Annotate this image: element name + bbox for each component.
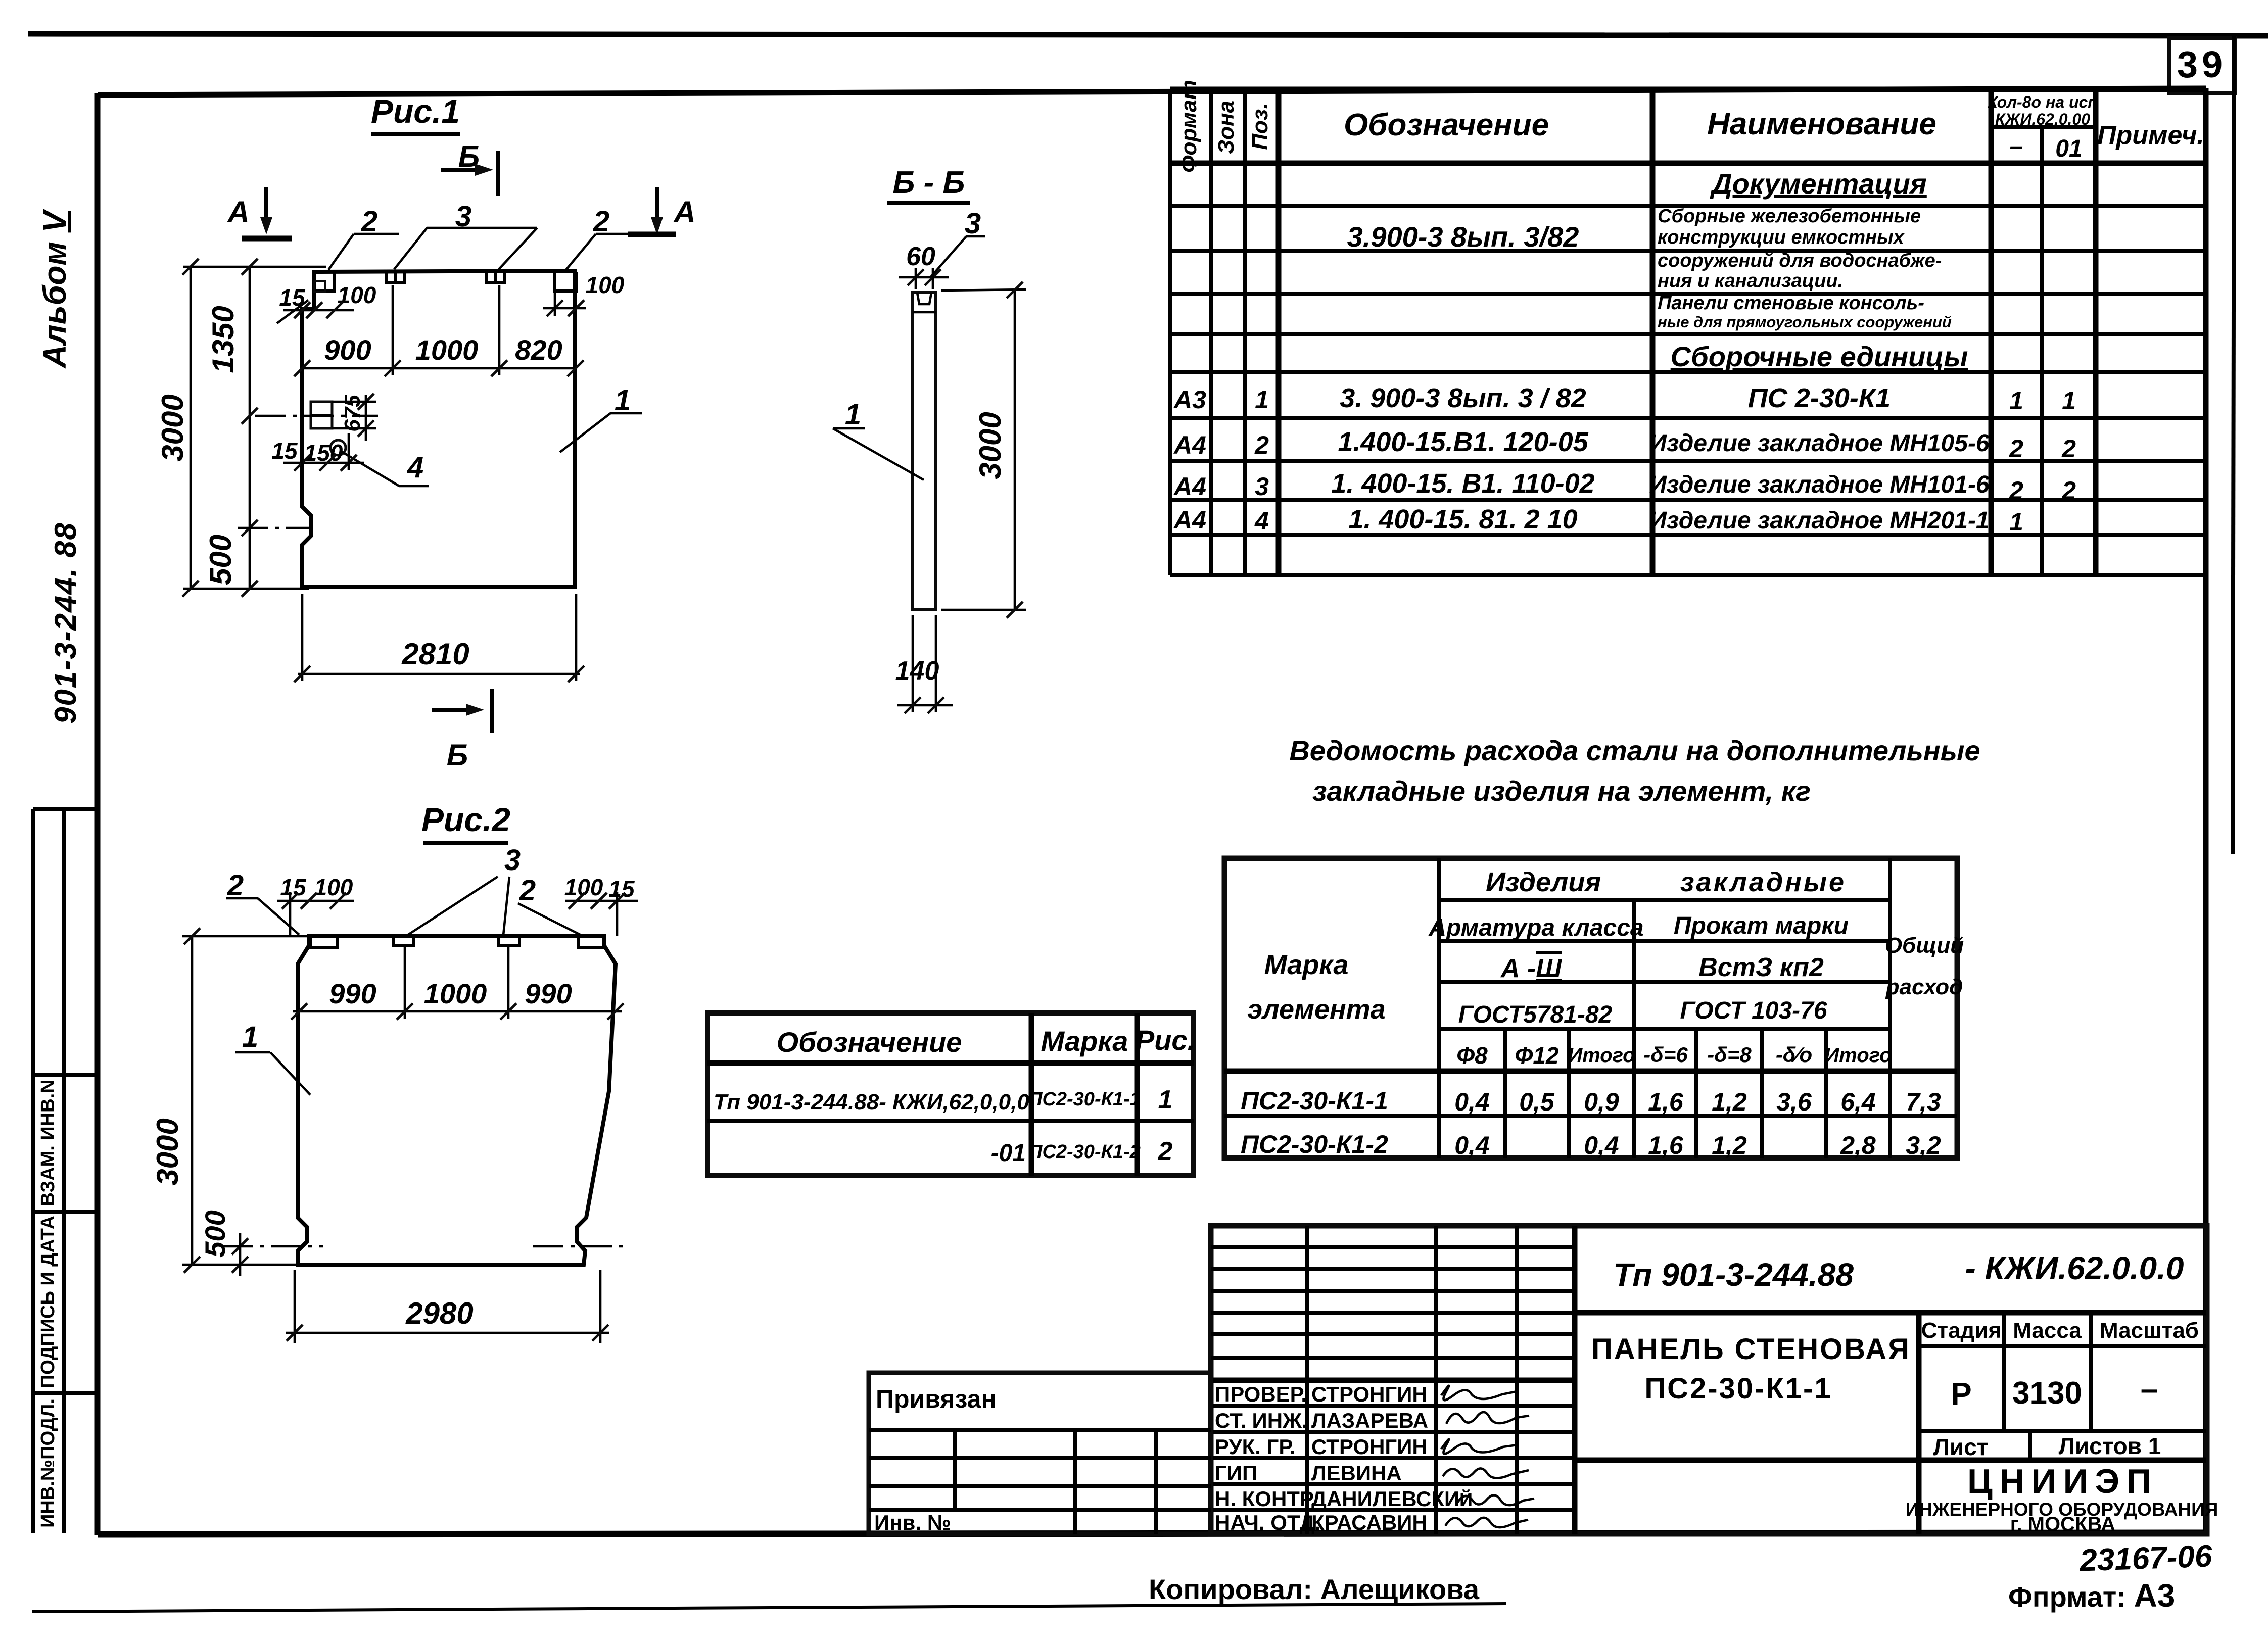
- svg-text:7,3: 7,3: [1906, 1088, 1941, 1116]
- svg-text:15: 15: [279, 284, 306, 311]
- margin label ИНВ.№ПОДЛ: [37, 1398, 59, 1528]
- svg-text:1: 1: [2009, 508, 2023, 536]
- svg-text:Рис.: Рис.: [1136, 1024, 1195, 1056]
- personnel row НАЧ.ОТД КРАСАВИН: [1215, 1511, 1428, 1534]
- svg-text:Примеч.: Примеч.: [2097, 121, 2204, 150]
- svg-text:1,6: 1,6: [1648, 1088, 1684, 1116]
- section Б-Б leader 3: [931, 207, 985, 277]
- fig2 leader label 3: [407, 844, 521, 935]
- svg-text:Обозначение: Обозначение: [777, 1026, 962, 1058]
- fig1 section mark Б bottom: [432, 689, 492, 772]
- svg-text:1: 1: [1158, 1085, 1173, 1115]
- steel table header ГОСТ rows: [1458, 997, 1827, 1028]
- svg-text:1: 1: [845, 398, 861, 431]
- fig1 dim 675: [332, 394, 376, 441]
- fig2 dims 990 1000 990: [291, 947, 624, 1020]
- svg-text:1. 400-15. В1. 110-02: 1. 400-15. В1. 110-02: [1331, 468, 1594, 499]
- svg-text:А4: А4: [1173, 472, 1206, 501]
- svg-text:Сборочные единицы: Сборочные единицы: [1671, 341, 1968, 372]
- spec header Формат: [1176, 80, 1201, 173]
- svg-text:2: 2: [2061, 476, 2076, 505]
- personnel row СТ.ИНЖ ЛАЗАРЕВА: [1215, 1409, 1428, 1432]
- fig2 dims 15 100 left: [277, 874, 354, 936]
- svg-text:ПС2-30-К1-2: ПС2-30-К1-2: [1028, 1141, 1141, 1163]
- svg-text:3: 3: [504, 844, 521, 877]
- spec header Зона: [1214, 101, 1239, 154]
- svg-text:Стадия: Стадия: [1921, 1318, 2001, 1343]
- svg-text:3. 900-3 8ып. 3 / 82: 3. 900-3 8ып. 3 / 82: [1340, 383, 1586, 413]
- spec header Кол-во на исп: [1988, 93, 2098, 162]
- svg-text:расход: расход: [1885, 975, 1963, 999]
- title block outer box: [1211, 1226, 2207, 1534]
- section Б-Б title: [887, 165, 970, 203]
- fig1 dims 900 1000 820: [294, 285, 584, 376]
- steel table header Марка элемента: [1247, 950, 1385, 1025]
- svg-text:100: 100: [564, 874, 603, 900]
- svg-text:Н. КОНТР.: Н. КОНТР.: [1215, 1487, 1316, 1511]
- steel table row ПС2-30-К1-2: [1241, 1130, 1941, 1160]
- section Б-Б bar outline: [913, 293, 936, 610]
- svg-text:ПОДПИСЬ И ДАТА: ПОДПИСЬ И ДАТА: [37, 1216, 59, 1388]
- svg-text:элемента: элемента: [1247, 994, 1385, 1025]
- svg-text:15: 15: [608, 876, 635, 902]
- svg-text:Фпрмат: А3: Фпрмат: А3: [2008, 1577, 2175, 1614]
- svg-text:1,6: 1,6: [1648, 1131, 1684, 1160]
- fig2 tab b: [394, 936, 414, 945]
- svg-text:ПС2-30-К1-1: ПС2-30-К1-1: [1028, 1089, 1141, 1110]
- svg-text:ВстЗ кп2: ВстЗ кп2: [1698, 953, 1824, 982]
- svg-text:СТРОНГИН: СТРОНГИН: [1311, 1435, 1428, 1459]
- svg-text:Рис.1: Рис.1: [371, 92, 460, 130]
- top paper edge line: [28, 34, 2268, 36]
- svg-text:140: 140: [895, 656, 939, 686]
- right fold line: [2233, 36, 2234, 854]
- svg-text:Ведомость расхода стали на: Ведомость расхода стали на дополнительны…: [1289, 735, 1980, 766]
- svg-text:500: 500: [204, 535, 238, 585]
- svg-text:ЛАЗАРЕВА: ЛАЗАРЕВА: [1311, 1409, 1428, 1432]
- signature 5: [1457, 1495, 1534, 1505]
- svg-text:1.400-15.В1. 120-05: 1.400-15.В1. 120-05: [1338, 427, 1588, 457]
- fig1 dim 500: [204, 520, 309, 597]
- marks table headers: [777, 1024, 1196, 1058]
- svg-text:Тп 901-3-244.88- КЖИ,62,0,0,0: Тп 901-3-244.88- КЖИ,62,0,0,0: [714, 1090, 1029, 1115]
- signature 6: [1445, 1518, 1528, 1527]
- svg-text:Изделие закладное МН101-6: Изделие закладное МН101-6: [1649, 471, 1990, 498]
- sheet number box 39: [2169, 38, 2235, 93]
- svg-text:2810: 2810: [401, 637, 469, 671]
- svg-text:Поз.: Поз.: [1248, 103, 1272, 150]
- svg-text:ПАНЕЛЬ СТЕНОВАЯ: ПАНЕЛЬ СТЕНОВАЯ: [1591, 1333, 1911, 1366]
- svg-text:901-3-244. 88: 901-3-244. 88: [49, 522, 82, 724]
- svg-text:А4: А4: [1173, 431, 1206, 459]
- svg-text:2: 2: [1158, 1137, 1173, 1166]
- svg-text:1000: 1000: [424, 978, 487, 1009]
- fig1 tab item2 left: [314, 272, 335, 292]
- svg-text:Альбом V: Альбом V: [36, 208, 73, 369]
- section Б-Б dim 140: [895, 615, 953, 713]
- svg-text:3000: 3000: [151, 1118, 184, 1185]
- svg-text:1: 1: [615, 384, 631, 417]
- svg-text:ГОСТ5781-82: ГОСТ5781-82: [1458, 1001, 1613, 1028]
- fig2 dim 2980: [286, 1270, 609, 1343]
- fig2 panel outline: [298, 936, 616, 1265]
- section Б-Б leader 1: [833, 398, 924, 480]
- svg-text:01: 01: [2055, 135, 2082, 162]
- svg-text:2: 2: [227, 869, 244, 902]
- spec section Сборочные единицы: [1671, 341, 1968, 372]
- svg-text:2: 2: [2009, 435, 2023, 463]
- svg-text:-δ=8: -δ=8: [1707, 1043, 1752, 1067]
- svg-text:990: 990: [329, 978, 376, 1009]
- fig1 embedded item4 box: [311, 402, 346, 455]
- fig2 dim 3000: [151, 928, 309, 1273]
- svg-text:1350: 1350: [206, 306, 240, 373]
- svg-text:Инв. №: Инв. №: [874, 1511, 951, 1534]
- fig1 leader label 1: [560, 384, 642, 452]
- fig1 tab item3 b: [486, 272, 504, 283]
- svg-text:3,2: 3,2: [1906, 1131, 1941, 1160]
- svg-text:Марка: Марка: [1264, 950, 1349, 980]
- svg-text:2: 2: [1254, 431, 1269, 459]
- marks table row 2: [991, 1137, 1173, 1167]
- fig1 dim 1350: [206, 259, 378, 590]
- svg-text:0,4: 0,4: [1584, 1131, 1619, 1160]
- signature 4: [1443, 1468, 1529, 1478]
- svg-text:0,4: 0,4: [1454, 1088, 1490, 1116]
- svg-text:Масса: Масса: [2013, 1318, 2082, 1343]
- steel table grid: [1224, 858, 1957, 1158]
- svg-text:ния и канализации.: ния и канализации.: [1658, 270, 1843, 292]
- attachment box ПРИВЯЗАН: [869, 1373, 1211, 1534]
- fig2 title: [421, 801, 510, 843]
- svg-text:2980: 2980: [405, 1296, 473, 1330]
- svg-text:сооружений для водоснабже-: сооружений для водоснабже-: [1658, 250, 1942, 271]
- marks table row 1: [714, 1085, 1172, 1115]
- fig2 tab a: [310, 936, 338, 948]
- svg-text:500: 500: [199, 1210, 231, 1257]
- svg-text:А: А: [673, 195, 695, 229]
- svg-text:НАЧ. ОТД.: НАЧ. ОТД.: [1215, 1511, 1320, 1534]
- svg-text:г. МОСКВА: г. МОСКВА: [2010, 1513, 2115, 1535]
- inventory number 23167-06: [2078, 1538, 2213, 1578]
- title block revision grid: [1211, 1226, 1575, 1534]
- svg-text:990: 990: [525, 978, 572, 1009]
- attachment grid: [869, 1430, 1211, 1534]
- personnel row ПРОВЕР СТРОНГИН: [1215, 1382, 1428, 1406]
- svg-text:Изделие закладное МН201-1: Изделие закладное МН201-1: [1649, 507, 1989, 534]
- svg-text:Панели стеновые консоль-: Панели стеновые консоль-: [1658, 293, 1924, 314]
- svg-text:-δ=6: -δ=6: [1643, 1043, 1688, 1067]
- svg-text:ГОСТ 103-76: ГОСТ 103-76: [1680, 997, 1827, 1024]
- svg-text:Изделие закладное МН105-6: Изделие закладное МН105-6: [1649, 430, 1990, 457]
- svg-text:ПС2-30-К1-2: ПС2-30-К1-2: [1241, 1130, 1388, 1159]
- svg-text:4: 4: [407, 451, 423, 484]
- spec row 3 МН101-6: [1173, 468, 2076, 505]
- svg-text:60: 60: [906, 242, 935, 271]
- section Б-Б dim 3000: [941, 282, 1026, 618]
- title block stage mass scale values: [1919, 1372, 2206, 1431]
- svg-text:3,6: 3,6: [1776, 1088, 1812, 1116]
- title block sheet row: [1933, 1431, 2161, 1460]
- steel table header Изделия закладные: [1486, 867, 1846, 897]
- svg-text:3: 3: [965, 207, 981, 240]
- svg-text:ПС 2-30-К1: ПС 2-30-К1: [1748, 383, 1891, 413]
- fig1 dim 3000 vertical: [156, 259, 326, 597]
- title block name cell: [1575, 1313, 2206, 1534]
- steel table heading: [1289, 735, 1980, 807]
- svg-text:Б: Б: [447, 738, 468, 772]
- fig1 section mark А right: [628, 187, 696, 234]
- fig1 leader label 3: [394, 200, 537, 269]
- section Б-Б dim 60: [899, 242, 949, 289]
- spec entry description: [1658, 206, 1952, 331]
- personnel row РУК.ГР СТРОНГИН: [1215, 1435, 1428, 1459]
- svg-text:1: 1: [2009, 387, 2023, 415]
- svg-text:Копировал: Алещикова: Копировал: Алещикова: [1149, 1573, 1480, 1605]
- svg-text:Обозначение: Обозначение: [1344, 108, 1549, 142]
- svg-text:Арматура класса: Арматура класса: [1428, 914, 1643, 941]
- svg-text:15: 15: [271, 438, 298, 464]
- svg-text:Марка: Марка: [1041, 1025, 1128, 1057]
- svg-text:А3: А3: [1173, 385, 1206, 414]
- svg-text:100: 100: [314, 874, 353, 900]
- fig2 dims 100 15 right: [564, 874, 638, 936]
- svg-text:2: 2: [2061, 435, 2076, 463]
- svg-text:ГИП: ГИП: [1215, 1461, 1257, 1485]
- svg-text:1. 400-15. 81. 2 10: 1. 400-15. 81. 2 10: [1348, 504, 1577, 535]
- svg-text:100: 100: [586, 272, 625, 298]
- svg-text:закладные: закладные: [1680, 867, 1846, 897]
- svg-text:ЛЕВИНА: ЛЕВИНА: [1311, 1461, 1402, 1485]
- fig1 leader label 4: [342, 451, 429, 486]
- fig2 tab d: [579, 936, 603, 948]
- svg-text:Ф8: Ф8: [1456, 1042, 1488, 1069]
- svg-text:ВЗАМ. ИНВ.N: ВЗАМ. ИНВ.N: [37, 1079, 59, 1206]
- spec header Поз.: [1248, 103, 1272, 150]
- svg-text:СТ. ИНЖ.: СТ. ИНЖ.: [1215, 1409, 1308, 1432]
- fig1 tab item3 a: [387, 272, 405, 283]
- fig2 tab c: [499, 936, 519, 945]
- spec row 4 МН201-1: [1173, 504, 2023, 536]
- svg-text:Р: Р: [1951, 1377, 1971, 1412]
- svg-text:закладные изделия на эле: закладные изделия на элемент, кг: [1312, 775, 1811, 807]
- svg-text:Привязан: Привязан: [876, 1385, 997, 1413]
- svg-text:Прокат марки: Прокат марки: [1674, 912, 1849, 939]
- bottom rule line: [32, 1604, 1506, 1612]
- svg-text:3000: 3000: [156, 394, 190, 461]
- svg-text:ПС2-30-К1-1: ПС2-30-К1-1: [1644, 1372, 1832, 1405]
- svg-text:Общий: Общий: [1885, 933, 1964, 958]
- svg-text:ПС2-30-К1-1: ПС2-30-К1-1: [1241, 1087, 1388, 1115]
- copied-by label: [1149, 1573, 1480, 1605]
- series label 901-3-244.88: [49, 522, 82, 724]
- svg-text:1,2: 1,2: [1712, 1088, 1747, 1116]
- svg-text:0,9: 0,9: [1584, 1088, 1619, 1116]
- svg-text:Зона: Зона: [1214, 101, 1239, 154]
- fig1 section mark А left: [226, 187, 292, 238]
- svg-text:4: 4: [1254, 507, 1269, 535]
- svg-text:Б - Б: Б - Б: [893, 165, 965, 200]
- svg-text:39: 39: [2177, 43, 2227, 85]
- svg-text:ЦНИИЭП: ЦНИИЭП: [1967, 1462, 2158, 1501]
- fig1 dim 2810: [294, 594, 584, 682]
- svg-text:Лист: Лист: [1933, 1434, 1989, 1460]
- svg-text:0,5: 0,5: [1519, 1088, 1555, 1116]
- svg-text:ИНВ.№ПОДЛ.: ИНВ.№ПОДЛ.: [37, 1398, 59, 1528]
- svg-text:3130: 3130: [2012, 1376, 2082, 1411]
- svg-text:3000: 3000: [973, 412, 1007, 479]
- svg-text:Итого: Итого: [1568, 1044, 1635, 1067]
- svg-text:900: 900: [324, 334, 371, 366]
- svg-text:Рис.2: Рис.2: [421, 801, 510, 838]
- svg-text:2: 2: [2009, 476, 2023, 505]
- svg-text:Формат: Формат: [1176, 80, 1201, 173]
- left margin stamp boxes: [33, 809, 98, 1533]
- svg-text:6,4: 6,4: [1840, 1088, 1876, 1116]
- svg-text:Листов 1: Листов 1: [2059, 1433, 2161, 1459]
- margin label ПОДПИСЬ И ДАТА: [37, 1216, 59, 1388]
- steel table row ПС2-30-К1-1: [1241, 1087, 1941, 1116]
- steel table header Арматура класса / Прокат марки: [1428, 912, 1849, 941]
- signature 3: [1441, 1439, 1517, 1454]
- svg-text:ные для прямоугольных сооружен: ные для прямоугольных сооружений: [1658, 313, 1952, 331]
- svg-text:Ф12: Ф12: [1515, 1042, 1558, 1069]
- svg-text:А -Ш: А -Ш: [1500, 954, 1562, 983]
- svg-text:- КЖИ.62.0.0.0: - КЖИ.62.0.0.0: [1965, 1250, 2184, 1286]
- steel table header Общий расход: [1885, 933, 1964, 999]
- steel table diameter headers: [1456, 1042, 1892, 1069]
- svg-text:Изделия: Изделия: [1486, 867, 1601, 897]
- svg-text:ДАНИЛЕВСКИЙ: ДАНИЛЕВСКИЙ: [1311, 1487, 1473, 1511]
- svg-text:23167-06: 23167-06: [2078, 1538, 2213, 1578]
- svg-text:–: –: [2141, 1372, 2158, 1407]
- fig1 leader label 2 left: [328, 205, 399, 270]
- spec header Обозначение: [1344, 108, 1549, 142]
- svg-text:1: 1: [242, 1021, 258, 1053]
- svg-text:Сборные железобетонные: Сборные железобетонные: [1658, 206, 1921, 227]
- svg-text:Наименование: Наименование: [1707, 107, 1936, 141]
- format label A3: [2008, 1577, 2175, 1614]
- svg-text:КЖИ,62.0.00: КЖИ,62.0.00: [1995, 110, 2090, 128]
- personnel row Н.КОНТР ДАНИЛЕВСКИЙ: [1215, 1487, 1473, 1511]
- signature 2: [1446, 1412, 1529, 1424]
- signature 1: [1441, 1386, 1517, 1401]
- fig1 dim 15 100 top left: [277, 282, 376, 323]
- svg-text:1: 1: [1255, 385, 1269, 414]
- svg-text:Итого: Итого: [1824, 1044, 1892, 1067]
- spec header Наименование: [1707, 107, 1936, 141]
- album label Альбом V: [36, 208, 73, 369]
- svg-text:2,8: 2,8: [1840, 1131, 1876, 1160]
- svg-text:0,4: 0,4: [1454, 1131, 1490, 1160]
- svg-text:А4: А4: [1173, 506, 1206, 534]
- fig2 leader label 1: [235, 1021, 310, 1095]
- fig2 leader label 2 right: [518, 874, 581, 935]
- spec section Документация: [1710, 168, 1927, 200]
- fig1 panel outline: [302, 271, 575, 587]
- svg-text:Документация: Документация: [1710, 168, 1927, 200]
- attachment inventory label: [874, 1511, 951, 1534]
- title block stage mass scale header: [1919, 1313, 2206, 1431]
- spec entry 3.900-3 вып.3/82: [1347, 221, 1579, 253]
- spec header Примеч.: [2097, 121, 2204, 150]
- svg-text:А: А: [226, 195, 249, 229]
- svg-text:3.900-3 8ып. 3/82: 3.900-3 8ып. 3/82: [1347, 221, 1579, 253]
- marks table grid: [707, 1013, 1194, 1176]
- spec row 1 ПС2-30-К1: [1173, 383, 2076, 415]
- svg-text:Кол-8о на исп: Кол-8о на исп: [1988, 93, 2098, 111]
- fig1 tab item2 right: [555, 272, 576, 291]
- svg-text:КРАСАВИН: КРАСАВИН: [1311, 1511, 1428, 1534]
- svg-text:2: 2: [519, 874, 536, 907]
- fig1 dim 15 150: [271, 433, 364, 471]
- fig1 dim 100 top right: [543, 272, 625, 316]
- svg-text:820: 820: [515, 334, 562, 366]
- svg-text:100: 100: [338, 282, 376, 308]
- svg-text:1000: 1000: [415, 334, 479, 366]
- svg-text:конструкции емкостных: конструкции емкостных: [1658, 227, 1905, 248]
- spec row 2 МН105-6: [1173, 427, 2076, 463]
- fig2 dim 500: [199, 1210, 624, 1276]
- fig1 leader label 2 right: [566, 205, 632, 270]
- svg-text:3: 3: [1255, 472, 1269, 501]
- svg-text:-δ⁄о: -δ⁄о: [1776, 1043, 1812, 1067]
- svg-text:СТРОНГИН: СТРОНГИН: [1311, 1382, 1428, 1406]
- fig1 title: [371, 92, 460, 134]
- title block organization: [1906, 1462, 2218, 1535]
- svg-text:Масштаб: Масштаб: [2100, 1318, 2199, 1343]
- svg-text:1,2: 1,2: [1712, 1131, 1747, 1160]
- svg-text:ПРОВЕР.: ПРОВЕР.: [1215, 1382, 1307, 1406]
- specification table grid: [1170, 89, 2206, 575]
- fig1 section mark Б top: [441, 139, 498, 196]
- svg-text:РУК. ГР.: РУК. ГР.: [1215, 1435, 1296, 1459]
- margin label ВЗАМ.ИНВ.N: [37, 1079, 59, 1206]
- svg-text:-01: -01: [991, 1140, 1026, 1167]
- svg-text:1: 1: [2062, 387, 2076, 415]
- svg-text:Тп 901-3-244.88: Тп 901-3-244.88: [1613, 1257, 1854, 1293]
- svg-text:675: 675: [340, 395, 365, 432]
- title block doc number: [1575, 1250, 2206, 1313]
- personnel row ГИП ЛЕВИНА: [1215, 1461, 1402, 1485]
- fig2 leader label 2 left: [226, 869, 299, 935]
- svg-text:–: –: [2010, 133, 2023, 160]
- steel table header А-III / ВстЗ кп2: [1500, 953, 1824, 983]
